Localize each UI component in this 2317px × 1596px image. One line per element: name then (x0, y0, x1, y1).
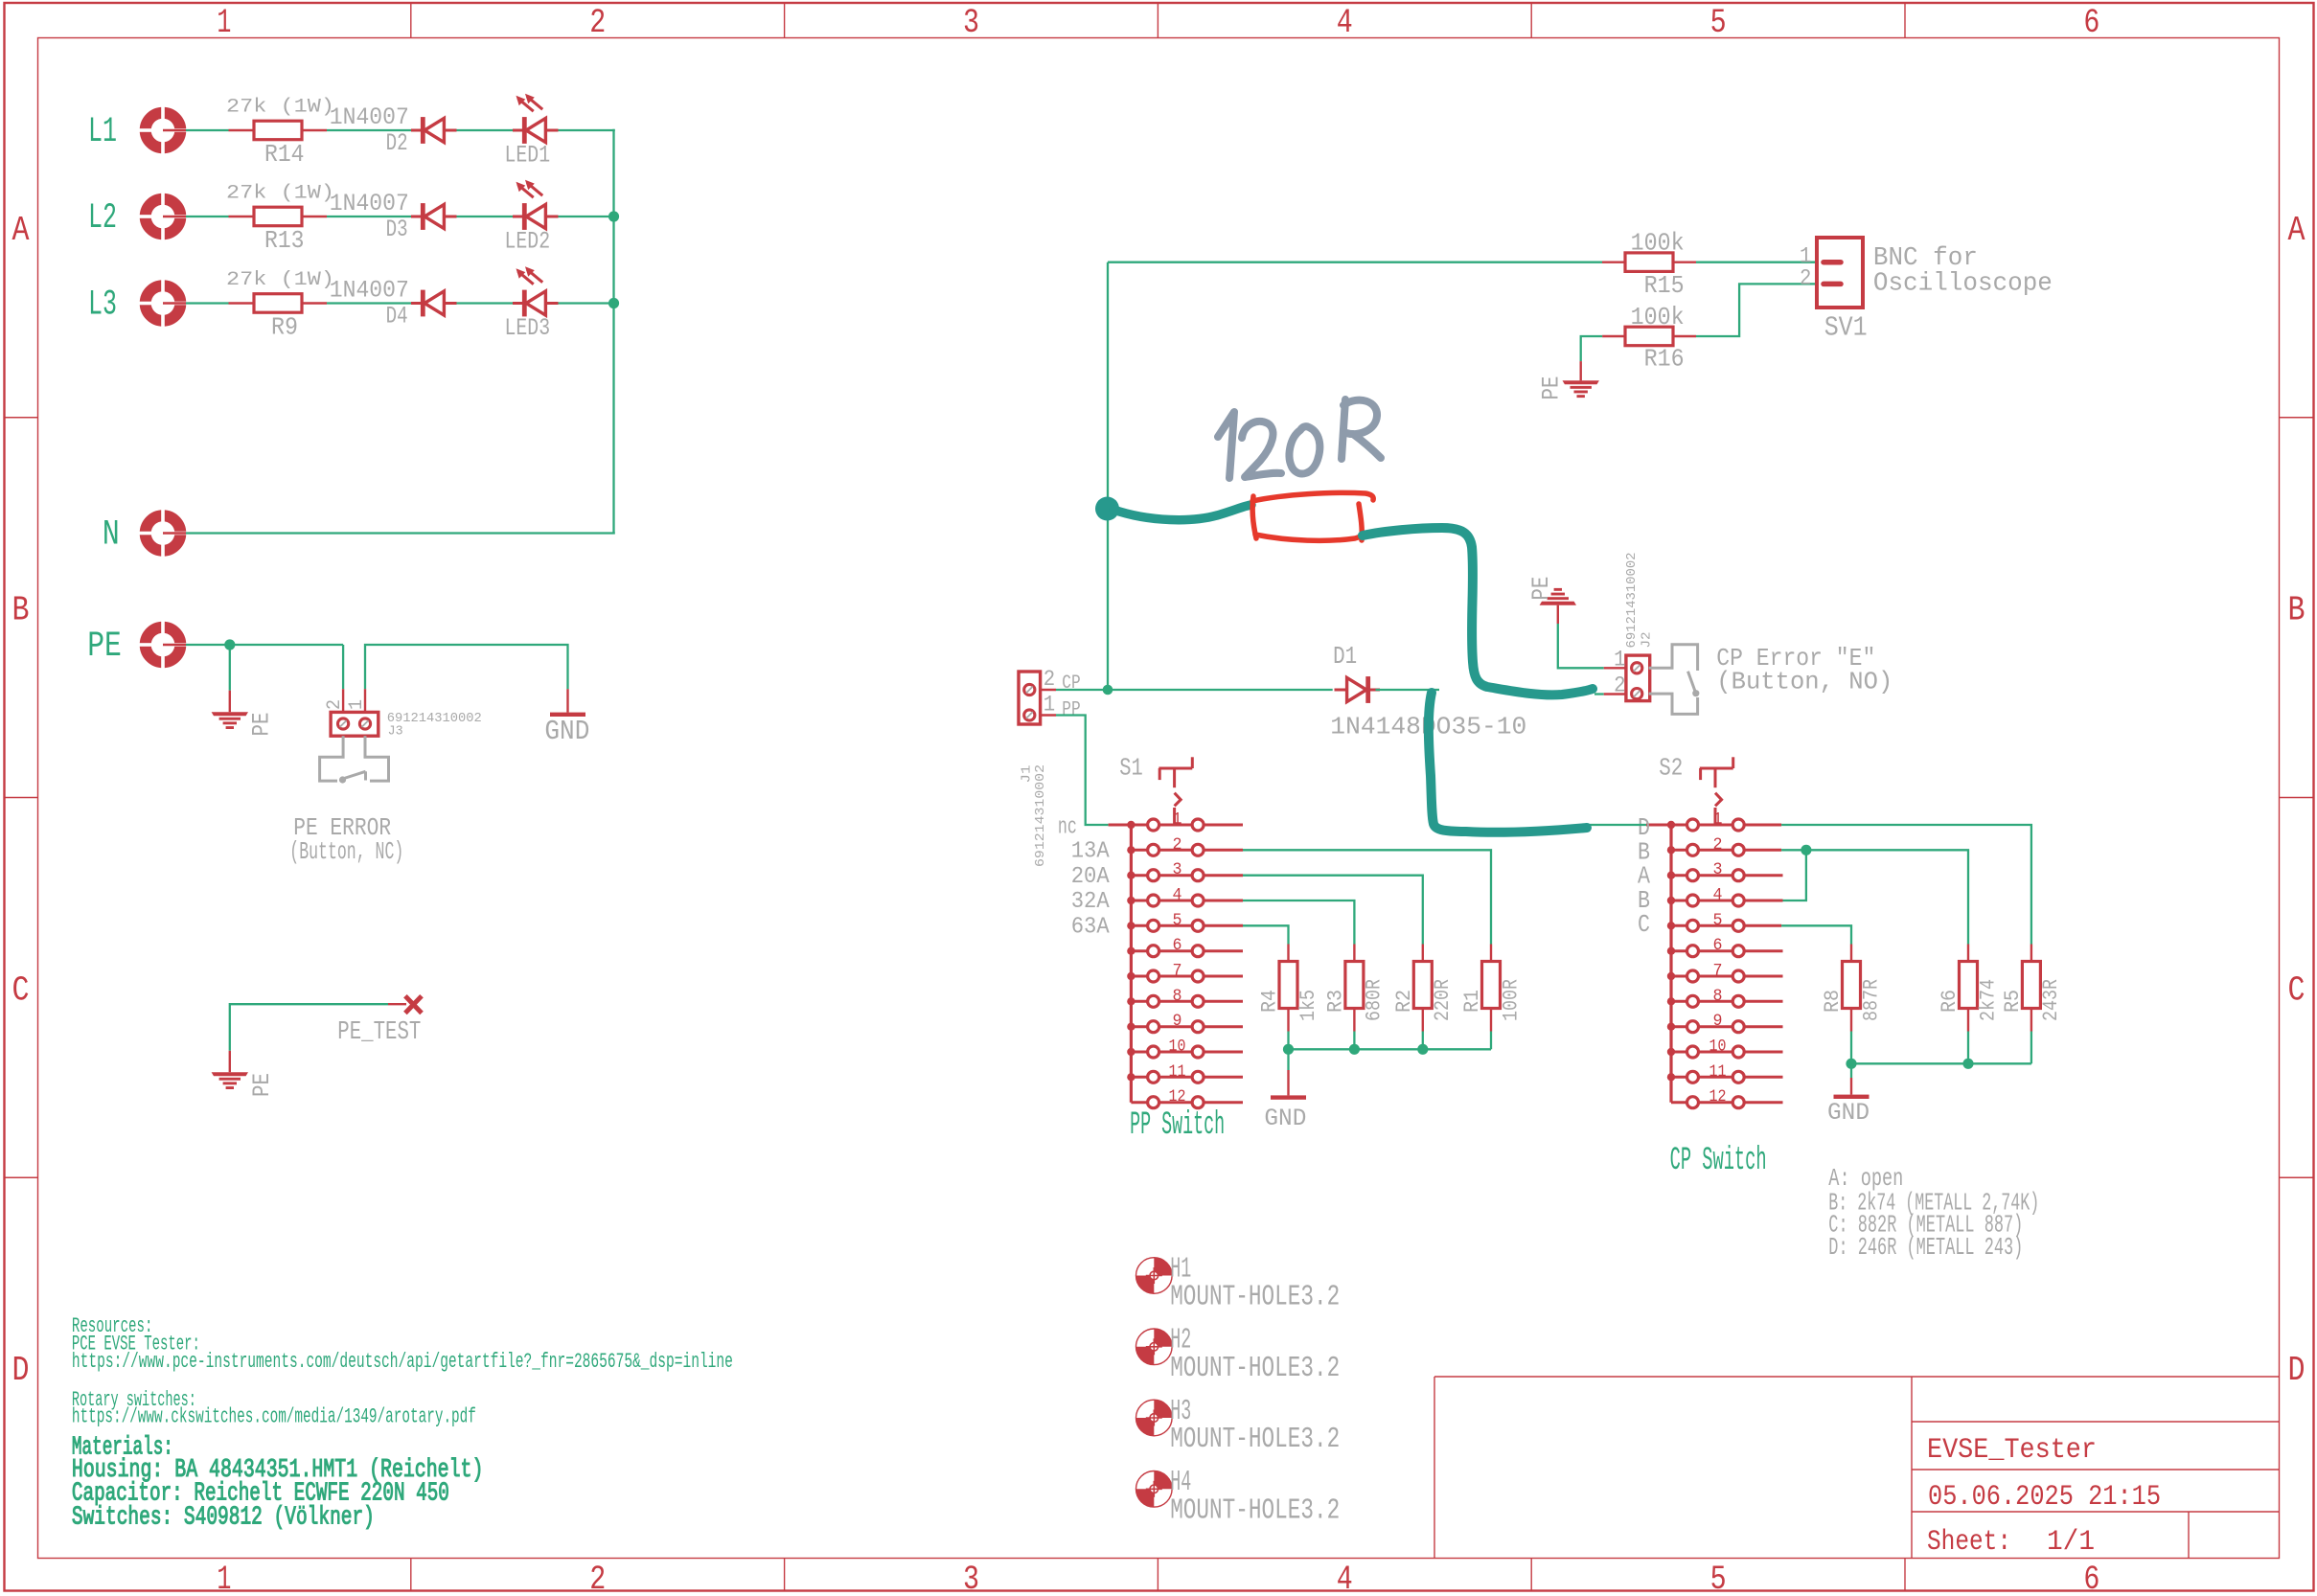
svg-text:243R: 243R (2039, 979, 2063, 1021)
resistor R15 (1602, 229, 1696, 300)
LED3 (505, 266, 559, 342)
svg-text:R16: R16 (1644, 345, 1685, 374)
svg-text:2: 2 (1713, 835, 1723, 855)
svg-text:4: 4 (1337, 4, 1353, 42)
resistor R6 (1938, 945, 2000, 1032)
svg-text:7: 7 (1173, 962, 1182, 981)
wire (229, 645, 231, 691)
svg-text:SV1: SV1 (1824, 312, 1868, 344)
pin row 9 S2 (1671, 1012, 1783, 1033)
svg-text:R5: R5 (2001, 990, 2025, 1013)
wire (342, 645, 344, 689)
svg-text:PE: PE (248, 1073, 276, 1097)
svg-text:2: 2 (1800, 266, 1811, 291)
mount hole H4 (1136, 1466, 1341, 1527)
pin row 5 S1 (1131, 911, 1243, 932)
CENTER J1 D1 J2 (1019, 262, 1893, 867)
svg-text:1: 1 (1044, 693, 1055, 718)
pin row 10 S1 (1131, 1037, 1243, 1059)
ANNOTATIONS (1095, 399, 1593, 832)
svg-text:5: 5 (1173, 911, 1182, 930)
svg-text:CP: CP (1062, 673, 1080, 695)
resistor R8 (1821, 945, 1883, 1032)
svg-text:J1: J1 (1019, 765, 1034, 784)
svg-text:4: 4 (1173, 886, 1182, 905)
svg-text:PE: PE (248, 713, 276, 737)
pin row 8 S1 (1131, 987, 1243, 1008)
L3 ROW (88, 129, 619, 534)
svg-text:L3: L3 (88, 285, 117, 326)
svg-text:1: 1 (217, 1561, 231, 1596)
switch actuator S1 (1158, 757, 1192, 823)
junction (1962, 1059, 1973, 1069)
svg-text:Switches: S409812 (Völkner): Switches: S409812 (Völkner) (72, 1504, 375, 1533)
resistor R1 (1460, 945, 1523, 1032)
wire (186, 129, 229, 131)
marker teal stroke B (1363, 528, 1593, 695)
row tick marks right (2280, 418, 2314, 1178)
resistor R4 (1258, 945, 1320, 1032)
wire (1287, 1049, 1289, 1070)
connector SV1 (1800, 238, 1868, 344)
svg-text:27k (1W): 27k (1W) (226, 182, 334, 204)
pad L3 (138, 279, 188, 329)
svg-text:R1: R1 (1460, 990, 1484, 1013)
connector J1 (1019, 667, 1081, 867)
svg-text:D2: D2 (386, 129, 408, 157)
svg-text:9: 9 (1713, 1012, 1723, 1031)
svg-text:PP: PP (1062, 699, 1080, 721)
svg-text:11: 11 (1709, 1062, 1727, 1082)
junction (224, 639, 235, 650)
wire (457, 129, 514, 131)
resistor R14 (226, 96, 334, 169)
svg-text:3: 3 (963, 1561, 979, 1596)
pin row 12 S2 (1671, 1087, 1783, 1108)
bus S2 (1669, 825, 1672, 1103)
svg-text:887R: 887R (1859, 979, 1883, 1021)
svg-text:100k: 100k (1631, 229, 1685, 258)
svg-text:L2: L2 (88, 198, 117, 239)
pin row 8 S2 (1671, 987, 1783, 1008)
svg-text:3: 3 (963, 4, 979, 42)
wire (457, 302, 514, 304)
svg-text:691214310002: 691214310002 (1033, 764, 1048, 867)
svg-text:1: 1 (346, 699, 368, 710)
svg-text:R3: R3 (1324, 990, 1348, 1013)
svg-text:12: 12 (1709, 1087, 1727, 1106)
svg-text:B: B (2288, 591, 2306, 630)
svg-text:LED2: LED2 (505, 228, 551, 256)
svg-text:BNC for: BNC for (1873, 244, 1978, 273)
pad N (138, 509, 188, 559)
svg-text:R2: R2 (1392, 990, 1416, 1013)
svg-text:2k74: 2k74 (1976, 979, 2000, 1021)
TITLE BLOCK (1434, 1377, 2280, 1559)
wire 20A net (1243, 876, 1423, 945)
svg-text:5: 5 (1710, 1561, 1727, 1596)
node PE_TEST (337, 996, 422, 1047)
wire (1581, 336, 1602, 361)
svg-text:5: 5 (1713, 911, 1723, 930)
column tick marks top (411, 3, 1905, 38)
resistor R9 (226, 269, 334, 342)
svg-text:MOUNT-HOLE3.2: MOUNT-HOLE3.2 (1170, 1423, 1340, 1456)
pin row 2 S2 (1671, 835, 1781, 856)
pad PE (138, 620, 188, 670)
ground PE (212, 691, 276, 737)
svg-text:5: 5 (1710, 4, 1727, 42)
junction (1283, 1044, 1294, 1055)
connector J2 (1604, 553, 1655, 701)
svg-text:A: A (12, 211, 30, 250)
svg-text:4: 4 (1337, 1561, 1353, 1596)
svg-text:PE: PE (87, 627, 122, 667)
pin row 11 S1 (1131, 1062, 1243, 1083)
L1 ROW (88, 94, 615, 170)
pin row 7 S1 (1131, 962, 1243, 983)
ground PE (1538, 361, 1599, 399)
svg-text:MOUNT-HOLE3.2: MOUNT-HOLE3.2 (1170, 1352, 1340, 1385)
pin row 7 S2 (1671, 962, 1783, 983)
svg-text:11: 11 (1169, 1062, 1186, 1082)
svg-text:R4: R4 (1258, 990, 1282, 1013)
junction (1349, 1044, 1360, 1055)
svg-text:C: C (1638, 910, 1650, 939)
svg-text:R15: R15 (1644, 271, 1685, 300)
resistor R16 (1602, 303, 1696, 374)
S1 BLOCK (1058, 754, 1523, 1145)
svg-text:D: D (2288, 1351, 2306, 1390)
pin row 12 S1 (1131, 1087, 1243, 1108)
svg-text:6: 6 (1173, 936, 1182, 955)
svg-text:PP Switch: PP Switch (1130, 1107, 1225, 1144)
svg-text:10: 10 (1709, 1037, 1727, 1057)
wire 63A net (1243, 925, 1289, 944)
ground GND S1 (1264, 1070, 1306, 1132)
svg-text:2: 2 (1173, 835, 1182, 855)
svg-text:1: 1 (1614, 647, 1625, 672)
marker teal stroke A (1113, 505, 1251, 520)
pin row 3 S2 (1671, 860, 1783, 881)
wire D net (1587, 825, 2031, 945)
pad L1 (138, 105, 188, 155)
svg-text:GND: GND (1264, 1105, 1306, 1132)
svg-text:R13: R13 (264, 226, 305, 255)
svg-text:1N4007: 1N4007 (330, 190, 409, 217)
svg-text:D: 246R (METALL 243): D: 246R (METALL 243) (1828, 1233, 2023, 1262)
wire junction row S1 (1289, 1032, 1492, 1050)
junction dots S2 bus (1667, 821, 1675, 1082)
svg-text:220R: 220R (1431, 979, 1455, 1021)
svg-text:6: 6 (2083, 4, 2099, 42)
svg-text:Oscilloscope: Oscilloscope (1873, 270, 2053, 299)
button PE ERROR (320, 736, 389, 783)
svg-text:EVSE_Tester: EVSE_Tester (1927, 1434, 2097, 1467)
svg-text:6: 6 (2083, 1561, 2099, 1596)
svg-text:2: 2 (1614, 673, 1625, 697)
wire (1108, 262, 1602, 263)
title block frame (1434, 1377, 2280, 1559)
wire (1850, 1063, 1852, 1078)
junction (1846, 1059, 1856, 1069)
switch actuator S2 (1700, 757, 1733, 823)
svg-text:S1: S1 (1119, 754, 1143, 783)
handwritten 120 R (1218, 399, 1381, 478)
wire CP (1056, 689, 1333, 691)
svg-text:R6: R6 (1938, 990, 1961, 1013)
diode D4 (330, 276, 457, 330)
svg-text:1: 1 (1173, 810, 1182, 830)
junction (608, 211, 619, 221)
svg-text:(Button, NO): (Button, NO) (1716, 668, 1893, 696)
svg-text:(Button, NC): (Button, NC) (289, 837, 403, 866)
S2 BLOCK (1587, 754, 2063, 1180)
wire 13A net (1243, 850, 1491, 944)
wire (559, 216, 614, 217)
wire (327, 129, 411, 131)
svg-text:R14: R14 (264, 140, 305, 169)
ground PE (212, 1051, 276, 1097)
bus S1 (1130, 825, 1133, 1103)
wire (1558, 624, 1604, 668)
wire junction row S2 (1851, 1032, 2031, 1064)
button CP Error (1649, 645, 1700, 715)
svg-text:1k5: 1k5 (1296, 990, 1320, 1021)
svg-text:2: 2 (589, 1561, 606, 1596)
N PE AREA (87, 509, 615, 867)
svg-text:100R: 100R (1499, 979, 1523, 1021)
svg-text:Sheet:: Sheet: (1927, 1526, 2011, 1559)
svg-text:10: 10 (1169, 1037, 1186, 1057)
pin row 4 S2 (1671, 886, 1783, 907)
svg-text:CP Switch: CP Switch (1670, 1143, 1767, 1179)
svg-text:nc: nc (1058, 815, 1077, 841)
wire PP (1056, 716, 1109, 826)
svg-text:27k (1W): 27k (1W) (226, 96, 334, 118)
svg-text:D3: D3 (386, 216, 408, 243)
resistor R3 (1324, 945, 1387, 1032)
wire 32A net (1243, 901, 1354, 945)
mount hole H2 (1136, 1324, 1341, 1385)
pin row 4 S1 (1131, 886, 1243, 907)
svg-text:GND: GND (1827, 1099, 1870, 1127)
svg-text:C: C (12, 970, 30, 1010)
PETEST (212, 996, 422, 1097)
pin row 10 S2 (1671, 1037, 1783, 1059)
svg-text:1N4007: 1N4007 (330, 103, 409, 131)
diode D3 (330, 190, 457, 243)
svg-text:L1: L1 (88, 112, 117, 152)
resistor R13 (226, 182, 334, 255)
pin row 6 S2 (1671, 936, 1783, 957)
svg-text:GND: GND (544, 716, 589, 747)
svg-text:R9: R9 (271, 313, 298, 342)
LED2 (505, 180, 559, 256)
wire (327, 216, 411, 217)
svg-text:1/1: 1/1 (2047, 1526, 2095, 1559)
svg-text:LED3: LED3 (505, 314, 551, 342)
svg-text:680R: 680R (1363, 979, 1387, 1021)
wire (612, 129, 614, 534)
pin row 3 S1 (1131, 860, 1243, 881)
svg-text:PE: PE (1538, 376, 1566, 400)
svg-text:7: 7 (1713, 962, 1723, 981)
svg-text:32A: 32A (1071, 889, 1111, 915)
svg-text:D4: D4 (386, 303, 408, 331)
pin row 1 S2 (1646, 810, 1781, 832)
svg-text:1: 1 (217, 4, 231, 42)
svg-text:PE_TEST: PE_TEST (337, 1018, 421, 1047)
svg-text:D: D (12, 1351, 30, 1390)
wire (1376, 689, 1440, 691)
svg-text:https://www.pce-instruments.co: https://www.pce-instruments.com/deutsch/… (72, 1349, 733, 1374)
svg-text:N: N (103, 515, 120, 556)
wire CP vertical (1107, 262, 1109, 690)
wire (186, 302, 229, 304)
pad L2 (138, 192, 188, 241)
wire (186, 532, 615, 534)
pin row 1 S1 (1109, 810, 1243, 832)
svg-text:D1: D1 (1333, 642, 1357, 671)
LED1 (505, 94, 559, 170)
svg-text:J3: J3 (388, 725, 403, 740)
svg-text:2: 2 (589, 4, 606, 42)
ground GND S2 (1827, 1078, 1870, 1127)
ground GND (544, 689, 589, 747)
wire (365, 645, 568, 689)
pin row 2 S1 (1131, 835, 1243, 856)
svg-text:B: B (12, 591, 30, 630)
junction dots S1 bus (1127, 821, 1135, 1082)
svg-text:9: 9 (1173, 1012, 1182, 1031)
wire (186, 216, 229, 217)
resistor R5 (2001, 945, 2063, 1032)
mount hole H3 (1136, 1395, 1341, 1456)
svg-text:3: 3 (1173, 860, 1182, 879)
junction (1801, 845, 1811, 855)
svg-text:S2: S2 (1659, 754, 1683, 783)
wire C net (1781, 925, 1851, 944)
wire B net (1781, 850, 1968, 944)
junction (608, 298, 619, 308)
svg-text:63A: 63A (1071, 915, 1111, 941)
wire (1696, 262, 1817, 263)
svg-text:691214310002: 691214310002 (1624, 553, 1640, 649)
svg-text:12: 12 (1169, 1087, 1186, 1106)
svg-text:8: 8 (1173, 987, 1182, 1006)
svg-text:2: 2 (324, 699, 346, 710)
column tick marks bottom (411, 1559, 1905, 1591)
svg-text:100k: 100k (1631, 303, 1685, 331)
svg-text:4: 4 (1713, 886, 1723, 905)
svg-text:3: 3 (1713, 860, 1723, 879)
svg-text:A: A (2288, 211, 2306, 250)
svg-text:PE: PE (1527, 577, 1555, 601)
wire (1594, 693, 1604, 695)
svg-text:05.06.2025 21:15: 05.06.2025 21:15 (1928, 1481, 2161, 1514)
svg-text:6: 6 (1713, 936, 1723, 955)
BOTTOM TEXT (72, 1313, 733, 1533)
svg-text:20A: 20A (1071, 864, 1111, 890)
pin row 9 S1 (1131, 1012, 1243, 1033)
pin row 6 S1 (1131, 936, 1243, 957)
diode D1 (1330, 642, 1526, 741)
pin row 11 S2 (1671, 1062, 1783, 1083)
junction (1103, 685, 1113, 695)
svg-text:LED1: LED1 (505, 142, 551, 170)
svg-text:MOUNT-HOLE3.2: MOUNT-HOLE3.2 (1170, 1281, 1340, 1314)
wire (230, 1004, 388, 1051)
svg-text:2: 2 (1044, 667, 1055, 692)
L2 ROW (88, 180, 619, 256)
svg-text:1N4007: 1N4007 (330, 276, 409, 304)
wire (457, 216, 514, 217)
ground PE inverted (1527, 577, 1576, 624)
mount hole H1 (1136, 1252, 1341, 1313)
svg-text:27k (1W): 27k (1W) (226, 269, 334, 291)
wire (1696, 284, 1817, 336)
resistor R2 (1392, 945, 1455, 1032)
wire (186, 644, 343, 646)
svg-text:8: 8 (1713, 987, 1723, 1006)
svg-text:R8: R8 (1821, 990, 1845, 1013)
marker teal dot (1095, 497, 1119, 521)
svg-text:13A: 13A (1071, 839, 1111, 865)
pin row 5 S2 (1671, 911, 1781, 932)
wire (327, 302, 411, 304)
TOPRIGHT (1108, 229, 2053, 400)
row tick marks left (5, 418, 38, 1178)
connector J3 (324, 689, 482, 739)
svg-text:MOUNT-HOLE3.2: MOUNT-HOLE3.2 (1170, 1493, 1340, 1527)
svg-text:1: 1 (1713, 810, 1723, 830)
marker red box 120R (1252, 492, 1373, 540)
NOTES HOLES (1136, 1164, 2040, 1527)
junction (1417, 1044, 1428, 1055)
marker teal stroke C (1429, 693, 1587, 832)
diode D2 (330, 103, 457, 157)
wire (559, 302, 614, 304)
svg-text:https://www.ckswitches.com/med: https://www.ckswitches.com/media/1349/ar… (72, 1404, 476, 1429)
svg-text:C: C (2288, 970, 2306, 1010)
wire (559, 129, 615, 131)
svg-text:J2: J2 (1640, 632, 1655, 649)
